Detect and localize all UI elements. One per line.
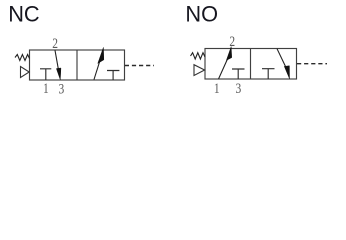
- valve V1 pilot triangle actuator: [21, 67, 30, 78]
- valve V2 position divider: [250, 49, 252, 80]
- svg-text:2: 2: [229, 33, 235, 50]
- svg-text:1: 1: [214, 80, 220, 97]
- valve V2 right cell blocked port 1 (T symbol): [262, 69, 275, 79]
- valve V2 right cell flow path 2 to 3 with arrow: [277, 49, 286, 68]
- valve V1 left cell blocked port 1 (T symbol): [40, 69, 51, 80]
- valve V2 pilot triangle actuator: [194, 65, 205, 76]
- valve V2 left cell flow path 1 to 2 with arrow: [219, 59, 228, 79]
- valve V1 pilot signal dashed line: [125, 65, 154, 67]
- valve V1 position divider: [76, 50, 78, 80]
- svg-text:NO: NO: [185, 2, 218, 27]
- valve V2 left cell blocked port 3 (T symbol): [232, 69, 245, 79]
- valve V2 return spring: [191, 53, 206, 59]
- valve V1 right cell flow path 1 to 2 with arrow: [94, 62, 100, 80]
- valve V1 (NC) body box: [30, 50, 125, 80]
- svg-text:NC: NC: [8, 2, 39, 27]
- valve V1 right cell blocked port 3 (T symbol): [107, 71, 119, 81]
- valve V1 left cell flow path 2 to 3 with arrow: [55, 50, 59, 70]
- svg-text:2: 2: [52, 35, 58, 52]
- valve V2 pilot signal dashed line: [297, 63, 327, 65]
- svg-text:1: 1: [43, 80, 49, 97]
- svg-text:3: 3: [59, 80, 65, 97]
- valve V1 return spring: [15, 55, 30, 61]
- valve V2 (NO) body box: [205, 49, 297, 80]
- svg-text:3: 3: [236, 80, 242, 97]
